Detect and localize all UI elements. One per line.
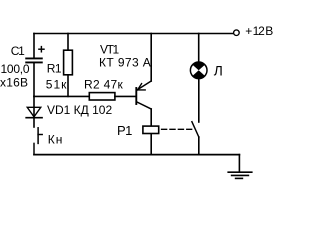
wire lamp to contact [198, 79, 200, 122]
svg-text:R1: R1 [47, 62, 62, 76]
wire C1 top lead [33, 34, 35, 58]
ground [228, 172, 252, 178]
wire middle rail to R2 [34, 95, 89, 97]
wire relay to bottom rail [150, 134, 152, 155]
wire R1 bottom lead [67, 75, 69, 96]
wire C1 bottom lead [33, 63, 35, 96]
lamp L top lead [198, 34, 200, 63]
svg-text:P1: P1 [117, 123, 132, 138]
capacitor C1 [26, 47, 44, 63]
svg-text:C1: C1 [11, 44, 25, 58]
diode VD1 [26, 96, 42, 127]
transistor VT1 [136, 81, 151, 125]
relay contact [192, 122, 199, 155]
lamp L [190, 62, 207, 79]
wire R2 to base [115, 95, 136, 97]
svg-text:Л: Л [214, 63, 223, 78]
svg-text:+12В: +12В [245, 24, 273, 38]
transistor VT1 emitter lead [150, 34, 152, 82]
svg-text:х16В: х16В [0, 75, 28, 89]
button Kn [34, 128, 42, 155]
wire bottom rail [34, 154, 239, 156]
resistor R2 [89, 93, 115, 100]
svg-text:VD1 КД 102: VD1 КД 102 [47, 103, 112, 117]
wire R1 top lead [67, 34, 69, 51]
dashed link relay to contact [162, 128, 192, 130]
resistor R1 [64, 50, 73, 75]
svg-text:КТ 973 А: КТ 973 А [99, 56, 151, 70]
svg-text:VT1: VT1 [100, 42, 120, 56]
svg-text:R2 47к: R2 47к [84, 77, 124, 91]
wire to ground [238, 155, 240, 172]
terminal +12V circle [234, 30, 240, 36]
svg-text:Кн: Кн [48, 133, 64, 147]
svg-text:100,0: 100,0 [1, 62, 30, 76]
wire top rail +12V [34, 33, 234, 35]
relay coil P1 [143, 126, 159, 133]
svg-text:51к: 51к [46, 77, 68, 91]
